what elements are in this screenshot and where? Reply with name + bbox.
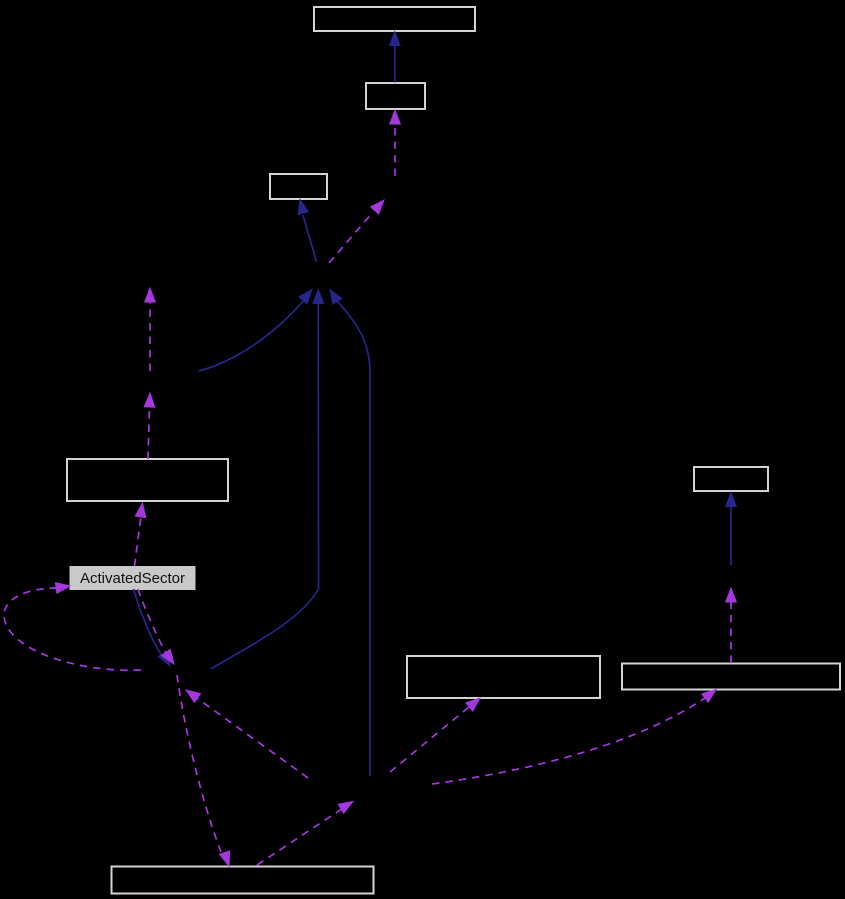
edge N4->N3 (dashed)	[145, 288, 156, 371]
node box F (right)	[694, 467, 768, 491]
svg-text:ActivatedSector: ActivatedSector	[80, 570, 185, 587]
node box B	[366, 83, 425, 109]
edge N1->C (solid)	[298, 200, 316, 263]
edge B->A (solid)	[390, 32, 401, 83]
edge N5->E loop (dashed)	[4, 583, 141, 671]
node box G (middle)	[407, 656, 600, 698]
edge N4->N1 curve (solid)	[199, 290, 312, 372]
edge N6->F (solid)	[726, 493, 737, 566]
edge N2->B (dashed)	[390, 110, 401, 176]
node ActivatedSector	[70, 567, 195, 590]
edge H->N6 (dashed)	[726, 588, 737, 663]
node box C	[270, 174, 327, 199]
edge N5->I (dashed)	[177, 675, 230, 866]
edge N7->G (dashed)	[390, 698, 480, 772]
node box H (right-bottom)	[622, 664, 840, 690]
edge E->N5 (solid)	[134, 589, 171, 666]
node box D (left)	[67, 459, 228, 501]
edge N7->N5 (dashed)	[186, 690, 308, 778]
edge E->D (dashed)	[135, 503, 146, 566]
node box A (top)	[314, 7, 475, 31]
edge D->N4 (dashed)	[144, 393, 155, 459]
edge N7->H (dashed)	[432, 690, 716, 785]
edge N7->N1 (solid)	[330, 290, 370, 777]
edge N5->N1 (solid)	[211, 290, 324, 670]
edge N1->N2 (dashed)	[329, 200, 384, 263]
edge E->N5 (dashed)	[138, 589, 174, 664]
edge I->N7 (dashed)	[257, 802, 353, 866]
node box I (bottom)	[112, 867, 374, 894]
